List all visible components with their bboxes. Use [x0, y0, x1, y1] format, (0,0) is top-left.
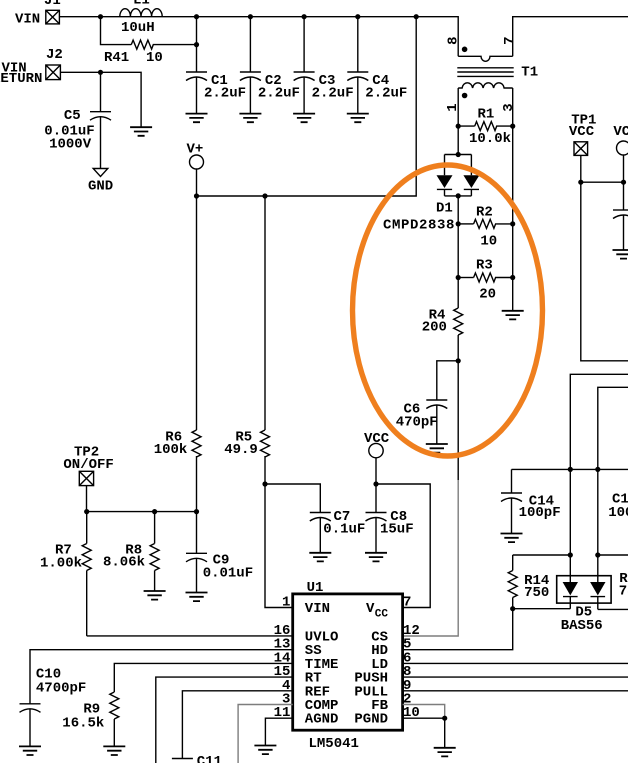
resistor R5 [224, 196, 269, 484]
svg-text:VIN: VIN [15, 11, 40, 27]
wire PGND pin10 [403, 718, 445, 748]
testpoint TP1 [569, 113, 597, 183]
node HD-R14 [510, 606, 515, 611]
capacitor C7 [310, 509, 366, 553]
wire D5 right top row [598, 554, 628, 556]
node rail-C2 [248, 14, 253, 19]
svg-text:750: 750 [524, 585, 549, 601]
svg-text:L1: L1 [133, 0, 150, 9]
svg-text:BAS56: BAS56 [561, 618, 603, 634]
wire RT pin15 [156, 677, 293, 763]
resistor R15 clipped labels [619, 571, 628, 600]
svg-text:470pF: 470pF [396, 414, 438, 430]
svg-text:8: 8 [446, 36, 462, 44]
node D5 left top [568, 552, 573, 557]
connector J2 [0, 47, 63, 87]
wire TP1 net to edge [581, 182, 628, 361]
svg-text:U1: U1 [307, 580, 324, 596]
svg-text:10: 10 [480, 234, 497, 250]
capacitor C5 [44, 72, 111, 168]
svg-text:V: V [366, 601, 375, 617]
resistor R8 [103, 512, 159, 591]
node R2 left [456, 221, 461, 226]
svg-text:J1: J1 [44, 0, 61, 9]
svg-text:2.2uF: 2.2uF [258, 86, 300, 102]
node rail-J1 [98, 14, 103, 19]
svg-text:PGND: PGND [354, 712, 388, 728]
svg-text:1: 1 [445, 103, 461, 111]
wire LD pin6 [403, 662, 628, 664]
wire C14 row [512, 468, 628, 470]
wire R5 node to pin1 [265, 484, 293, 608]
svg-text:C5: C5 [64, 108, 81, 124]
node V+ row R6 [194, 193, 199, 198]
svg-text:R1: R1 [478, 107, 495, 123]
svg-text:10: 10 [146, 50, 163, 66]
transformer T1 [445, 17, 628, 126]
ground C4 [347, 114, 369, 123]
svg-text:10.0k: 10.0k [469, 131, 511, 147]
ground GND power symbol [88, 169, 113, 195]
diode D1 dual CMPD2838 [383, 126, 479, 233]
wire R14 top row [513, 554, 571, 556]
wire FB pin2 gray [403, 705, 445, 719]
connector J1 [15, 0, 61, 27]
svg-text:CMPD2838: CMPD2838 [383, 218, 455, 234]
wire right edge to D5 left [570, 374, 628, 555]
capacitor C10 [20, 667, 87, 747]
svg-text:VCC: VCC [569, 124, 595, 140]
svg-text:100pF: 100pF [608, 505, 628, 521]
wire top rail VIN [59, 17, 458, 57]
capacitor C2 [240, 17, 300, 114]
node R3 right [510, 275, 515, 280]
svg-text:0.01uF: 0.01uF [203, 566, 253, 582]
node V+ row R5 [262, 193, 267, 198]
wire J2 to node [60, 71, 100, 73]
node R1 right [510, 124, 515, 129]
capacitor C14 [501, 469, 561, 533]
wire PULL pin9 [403, 690, 628, 692]
wire UVLO pin16 [87, 635, 293, 637]
wire VCC node to pin7 [376, 484, 430, 608]
node rail-Vplus-feed [414, 14, 419, 19]
node C14row-right [595, 467, 600, 472]
wire right edge to D5 right [598, 387, 628, 555]
wire pin3 chain down to ground [512, 126, 514, 311]
ground R8 [144, 591, 166, 600]
wire SS pin13 to C10 [30, 650, 293, 704]
resistor R1 [458, 107, 513, 148]
node D1 anodes [456, 152, 461, 157]
svg-text:100k: 100k [154, 442, 188, 458]
svg-text:200: 200 [422, 320, 447, 336]
node D1 cathodes [456, 193, 461, 198]
ground C12 [613, 250, 628, 259]
node R3 left [456, 275, 461, 280]
ground C14 [501, 534, 523, 543]
svg-text:J2: J2 [46, 47, 63, 63]
svg-text:LM5041: LM5041 [309, 736, 359, 752]
svg-text:15uF: 15uF [380, 522, 414, 538]
svg-text:750: 750 [619, 584, 628, 600]
capacitor C1 [186, 17, 246, 114]
wire TP1 row [581, 181, 624, 183]
svg-text:AGND: AGND [305, 712, 339, 728]
node C14row-left [568, 467, 573, 472]
wire COMP pin3 gray [238, 705, 293, 763]
ground AGND [254, 746, 276, 755]
svg-text:GND: GND [88, 178, 113, 194]
svg-text:7: 7 [403, 595, 411, 611]
capacitor C12 right edge [613, 182, 628, 250]
svg-text:R41: R41 [104, 50, 129, 66]
svg-text:C11: C11 [197, 754, 222, 763]
terminal VCC mid [364, 431, 390, 484]
wire HD pin5 [403, 609, 513, 650]
IC U1 LM5041 [293, 580, 403, 752]
resistor R7 [40, 512, 91, 636]
svg-text:49.9: 49.9 [224, 442, 258, 458]
resistor R2 [458, 204, 513, 249]
svg-text:CC: CC [375, 609, 389, 621]
ground C6 [426, 444, 448, 453]
inductor L1 [120, 0, 162, 36]
node VCC-C8 [373, 481, 378, 486]
node row-R6 [194, 509, 199, 514]
node R2 right [510, 221, 515, 226]
node D5 right top [595, 552, 600, 557]
capacitor C4 [347, 17, 407, 114]
svg-text:VCC: VCC [364, 431, 390, 447]
capacitor C8 [366, 484, 414, 553]
node R4-C6 [456, 358, 461, 363]
svg-text:4700pF: 4700pF [36, 681, 86, 697]
resistor R6 [154, 196, 201, 512]
svg-text:100pF: 100pF [519, 505, 561, 521]
svg-text:2.2uF: 2.2uF [204, 86, 246, 102]
svg-text:20: 20 [479, 287, 496, 303]
capacitor C6 [396, 361, 459, 444]
ground C10 [19, 746, 41, 755]
svg-text:1.00k: 1.00k [40, 556, 82, 572]
wire CS net gray [457, 361, 459, 480]
node R1 left [456, 124, 461, 129]
wire R5 node to C7 [265, 484, 320, 513]
svg-text:1000V: 1000V [49, 137, 92, 153]
ground C1 [186, 114, 208, 123]
ground pin3 chain [502, 311, 524, 320]
svg-text:7: 7 [502, 36, 518, 44]
svg-text:T1: T1 [521, 65, 538, 81]
node row-R8 [152, 509, 157, 514]
svg-text:16.5k: 16.5k [62, 716, 104, 732]
ground C7 [309, 553, 331, 562]
wire TP2 row [87, 511, 197, 513]
diode D5 dual BAS56 [513, 555, 628, 634]
capacitor C9 [186, 512, 253, 593]
ground J2 branch [130, 127, 152, 136]
node J2 [98, 70, 103, 75]
node PGND [442, 716, 447, 721]
highlight ellipse [353, 165, 543, 456]
ground PGND [434, 748, 456, 757]
resistor R4 [422, 196, 463, 361]
wire TIME pin14 to R9 [114, 663, 292, 692]
node rail-C4 [355, 14, 360, 19]
node R5 bottom [262, 481, 267, 486]
svg-text:0.1uF: 0.1uF [323, 522, 365, 538]
ground C3 [293, 114, 315, 123]
svg-text:1: 1 [282, 595, 290, 611]
wire REF pin4 to C11 [182, 691, 292, 759]
node VCC right [621, 180, 626, 185]
capacitor C3 [294, 17, 354, 114]
ground C2 [239, 114, 261, 123]
ground C9 [186, 593, 208, 602]
ground R9 [103, 746, 125, 755]
resistor R14 [508, 555, 549, 609]
node R41-C1 [194, 42, 199, 47]
svg-text:ON/OFF: ON/OFF [63, 457, 113, 473]
capacitor C15 clipped labels [608, 492, 628, 522]
wire AGND pin11 [265, 718, 292, 745]
svg-text:VIN: VIN [305, 601, 330, 617]
svg-text:VCC: VCC [613, 124, 628, 140]
resistor R41 [101, 17, 197, 66]
svg-text:8.06k: 8.06k [103, 555, 145, 571]
wire V+ row to rail feed [197, 17, 417, 196]
svg-text:10uH: 10uH [121, 20, 155, 36]
ground C8 [365, 553, 387, 562]
node rail-C3 [302, 14, 307, 19]
svg-text:3: 3 [501, 103, 517, 111]
resistor R9 [62, 692, 119, 746]
node TP1 [578, 180, 583, 185]
svg-text:R2: R2 [476, 204, 493, 220]
svg-text:R3: R3 [476, 258, 493, 274]
wire PUSH pin8 [403, 676, 628, 678]
node rail-C1 [194, 14, 199, 19]
svg-text:2.2uF: 2.2uF [312, 86, 354, 102]
terminal V+ [187, 141, 204, 196]
resistor R3 [458, 258, 513, 303]
svg-text:2.2uF: 2.2uF [365, 86, 407, 102]
testpoint TP2 [63, 444, 113, 511]
svg-text:RETURN: RETURN [0, 71, 42, 87]
node row-TP2 [84, 509, 89, 514]
terminal VCC right [613, 124, 628, 182]
wire J2 branch to ground [101, 72, 142, 127]
capacitor C11 [172, 754, 222, 763]
svg-text:D1: D1 [436, 201, 453, 217]
